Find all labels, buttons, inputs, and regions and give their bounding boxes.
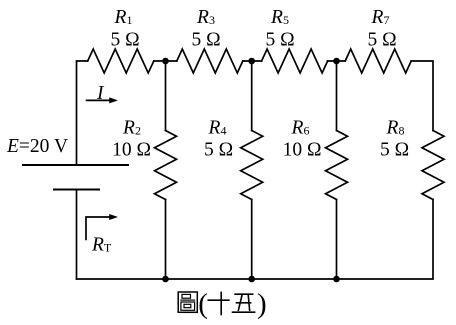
svg-text:R5: R5 <box>270 7 289 28</box>
node C junction dot <box>333 58 340 65</box>
svg-text:5 Ω: 5 Ω <box>110 30 139 51</box>
node D junction dot (bottom) <box>162 276 169 283</box>
resistor R5 <box>262 49 328 73</box>
node A junction dot <box>162 58 169 65</box>
svg-text:RT: RT <box>91 235 112 256</box>
svg-text:R3: R3 <box>196 7 215 28</box>
wire right bottom <box>77 200 434 280</box>
resistor R2 <box>155 131 177 200</box>
wire R5 to node C <box>328 60 346 62</box>
svg-text:R8: R8 <box>386 118 405 139</box>
svg-text:R2: R2 <box>122 118 141 139</box>
battery E long plate <box>23 164 128 166</box>
svg-text:10 Ω: 10 Ω <box>112 140 151 161</box>
svg-text:10 Ω: 10 Ω <box>283 140 322 161</box>
svg-text:R4: R4 <box>208 118 227 139</box>
svg-text:E=20 V: E=20 V <box>6 136 68 157</box>
node F junction dot (bottom) <box>333 276 340 283</box>
wire R2 bottom <box>165 200 167 280</box>
wire node C drop <box>336 61 338 131</box>
svg-text:5 Ω: 5 Ω <box>191 30 220 51</box>
resistor R1 <box>88 49 154 73</box>
svg-text:5 Ω: 5 Ω <box>204 140 233 161</box>
node B junction dot <box>248 58 255 65</box>
svg-text:R1: R1 <box>114 7 133 28</box>
caption glyph WU (五) <box>232 294 256 312</box>
node E junction dot (bottom) <box>248 276 255 283</box>
resistor R6 <box>326 131 348 200</box>
svg-text:): ) <box>257 288 267 320</box>
svg-text:5 Ω: 5 Ω <box>265 30 294 51</box>
resistor R4 <box>241 131 263 200</box>
svg-text:R7: R7 <box>371 7 390 28</box>
wire R3 to node B <box>243 60 262 62</box>
wire node A drop <box>165 61 167 131</box>
svg-text:R6: R6 <box>291 118 310 139</box>
wire node B drop <box>251 61 253 131</box>
current arrow I <box>86 97 118 103</box>
resistor R7 <box>345 49 411 73</box>
caption glyph TU (圖) <box>178 292 197 312</box>
battery E short plate <box>54 189 99 191</box>
svg-text:5 Ω: 5 Ω <box>380 140 409 161</box>
svg-text:(: ( <box>198 288 208 320</box>
svg-text:5 Ω: 5 Ω <box>367 30 396 51</box>
wire top-left segment <box>77 61 88 165</box>
wire R6 bottom <box>336 200 338 280</box>
resistor R3 <box>177 49 243 73</box>
caption glyph SHI (十) <box>208 292 230 316</box>
resistor R8 <box>422 131 444 200</box>
arrow RT <box>86 214 118 240</box>
wire R1 to node A <box>154 60 177 62</box>
wire R7 to right corner <box>411 61 433 131</box>
wire R4 bottom <box>251 200 253 280</box>
wire left bottom <box>76 190 78 280</box>
